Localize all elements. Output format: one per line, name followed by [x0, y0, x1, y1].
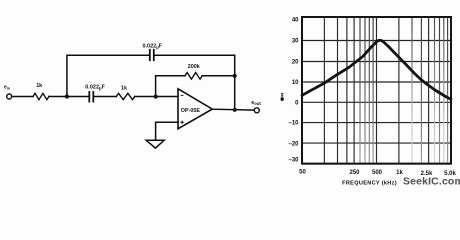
svg-text:0: 0	[295, 100, 299, 106]
svg-text:0.022μF: 0.022μF	[142, 43, 162, 49]
svg-text:SeekIC.com: SeekIC.com	[403, 176, 460, 187]
svg-text:1k: 1k	[36, 83, 42, 89]
svg-text:20: 20	[292, 60, 299, 66]
svg-text:10: 10	[292, 80, 299, 86]
svg-text:1k: 1k	[396, 170, 403, 176]
svg-text:0.022μF: 0.022μF	[85, 84, 105, 90]
svg-text:–10: –10	[288, 121, 299, 127]
svg-text:500: 500	[372, 170, 383, 176]
svg-text:OP-05E: OP-05E	[181, 108, 201, 114]
svg-text:200k: 200k	[188, 64, 200, 70]
svg-text:50: 50	[299, 170, 306, 176]
svg-text:ein: ein	[4, 85, 10, 91]
svg-text:–30: –30	[288, 158, 299, 164]
svg-text:1k: 1k	[121, 85, 127, 91]
svg-text:40: 40	[292, 18, 299, 24]
svg-text:FREQUENCY (kHz): FREQUENCY (kHz)	[342, 180, 397, 186]
svg-text:–20: –20	[288, 142, 299, 148]
svg-text:250: 250	[349, 170, 360, 176]
svg-text:30: 30	[292, 39, 299, 45]
svg-text:eout: eout	[251, 100, 261, 106]
